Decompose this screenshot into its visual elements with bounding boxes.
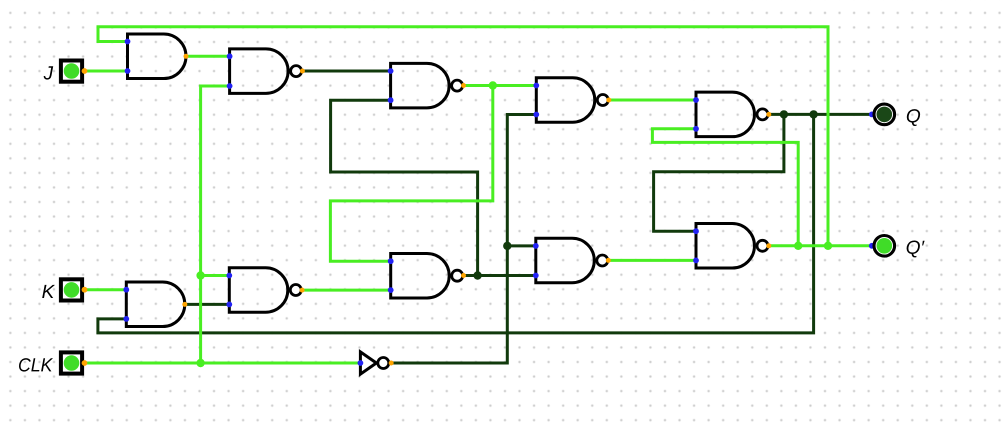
output node G7 (606, 258, 611, 263)
input J box (61, 61, 82, 82)
output node G10 (300, 288, 305, 293)
output node G3 (461, 83, 466, 88)
input node G6 pin1 (388, 258, 394, 264)
junction on Q wire (feedback to G8) (780, 110, 788, 118)
wire: AND G9 output to NAND G10 lower input (net low) (185, 303, 230, 306)
junction on Q wire (long feedback) (809, 110, 817, 118)
output Q ring (874, 104, 895, 125)
junction on Q' wire (feedback to G5) (794, 242, 802, 250)
input J state lamp (high) (64, 63, 80, 79)
wire: Q' feedback branch up to G5 lower input (652, 129, 798, 246)
wire: CLK horizontal run to NOT gate input (net high) (84, 362, 360, 365)
junction on inverted clock riser at G7 spur (503, 242, 511, 250)
wire: NAND G10 output to NAND G6 lower input (net high) (302, 289, 391, 292)
nand-gate G3 body (391, 63, 450, 108)
junction on Q' wire (top feedback) (824, 242, 832, 250)
label J (44, 66, 54, 79)
output node G8 (766, 243, 771, 248)
nand-gate G7 body (536, 238, 595, 283)
wire: CLK vertical riser up to G2 lower input (net high) (201, 86, 230, 363)
wire: NAND G6 output to NAND G7 lower input (net low) (464, 274, 536, 277)
wire: inverted clock net from NOT gate to G4 lower input (net low) (391, 115, 536, 364)
input node G3 pin2 (388, 97, 394, 103)
junction on CLK wire at riser base (196, 359, 204, 367)
wire: Q feedback branch to G8 upper input (654, 114, 784, 231)
input node G8 pin2 (693, 258, 699, 264)
and-gate G1 (128, 34, 186, 79)
input node of output Q' (869, 243, 875, 249)
input node G7 pin2 (533, 273, 539, 279)
input K box (61, 279, 82, 300)
input node G2 pin1 (227, 53, 233, 59)
input node NOT gate (358, 360, 364, 366)
input node G10 pin1 (226, 273, 232, 279)
input node G5 pin1 (693, 97, 699, 103)
input node G4 pin2 (533, 112, 539, 118)
input node G9 pin2 (123, 316, 129, 322)
output node G1 (184, 54, 189, 59)
wire: NAND G4 output to NAND G5 upper input (net high) (609, 99, 696, 102)
input node G6 pin2 (388, 287, 394, 293)
label Q (907, 109, 920, 126)
nand-gate G4 bubble (597, 95, 608, 106)
input node G2 pin2 (227, 83, 233, 89)
output Q' lamp (high) (877, 238, 893, 254)
label K (42, 285, 55, 298)
wire: input K to AND G9 upper input (net high) (84, 288, 126, 291)
junction on G3 output net (489, 81, 497, 89)
label Q' (907, 241, 925, 258)
nand-gate G8 body (696, 224, 754, 268)
output node G2 (300, 69, 305, 74)
wire: Q net from G5 output to output Q (net low) (769, 113, 872, 116)
wire: AND G1 output to NAND G2 upper input (net high) (186, 55, 230, 58)
input node G7 pin1 (533, 243, 539, 249)
wire: NAND G3 output to NAND G4 upper input (net high) (464, 84, 537, 87)
output node G5 (766, 112, 771, 117)
nand-gate G5 body (696, 92, 755, 136)
input node G1 pin1 (125, 39, 131, 45)
junction on G6 output net (473, 271, 481, 279)
wire: Q feedback long branch down and left to G9 lower input (98, 114, 814, 333)
input node G9 pin1 (123, 287, 129, 293)
wire: NAND G7 output to NAND G8 lower input (net high) (608, 259, 696, 262)
input node G8 pin1 (693, 228, 699, 234)
input node G10 pin2 (226, 302, 232, 308)
output node G9 (182, 302, 187, 307)
wire: Q' top feedback to AND G1 upper input (net high) (98, 27, 828, 246)
output Q' ring (874, 236, 895, 257)
output Q lamp (low) (877, 107, 893, 123)
nand-gate G10 bubble (290, 285, 301, 296)
nand-gate G4 body (536, 78, 594, 123)
nand-gate G5 bubble (757, 109, 768, 120)
output node G4 (606, 98, 611, 103)
input node G1 pin2 (125, 68, 131, 74)
nand-gate G7 bubble (597, 255, 608, 266)
wire: input J to AND G1 lower input (net high) (84, 70, 127, 73)
input K state lamp (high) (64, 282, 80, 298)
nand-gate G6 bubble (452, 270, 463, 281)
nand-gate G3 bubble (452, 80, 463, 91)
wire: NAND G2 output to NAND G3 input (net low) (302, 70, 390, 73)
input node G4 pin1 (533, 83, 539, 89)
output node NOT gate (389, 361, 394, 366)
wire: G3 output branch down-left to G6 upper input (330, 86, 492, 262)
nand-gate G2 body (230, 49, 289, 94)
not-gate triangle (clock inverter) (360, 352, 376, 374)
and-gate G9 (126, 282, 185, 327)
input CLK state lamp (high) (64, 355, 80, 371)
output node of input CLK (82, 360, 88, 366)
input CLK box (61, 352, 82, 373)
output node G6 (461, 273, 466, 278)
not-gate bubble (378, 358, 389, 369)
output node of input J (82, 68, 88, 74)
input node G3 pin1 (388, 68, 394, 74)
wire: Q' net from G8 output to output Q' (net high) (769, 244, 872, 247)
label CLK (19, 358, 53, 372)
output node of input K (82, 287, 88, 293)
wire: CLK spur to G10 upper input (201, 274, 230, 277)
nand-gate G8 bubble (757, 240, 768, 251)
junction on CLK riser at G10 spur (196, 271, 204, 279)
nand-gate G10 body (229, 268, 288, 313)
input node of output Q (869, 112, 875, 118)
input node G5 pin2 (693, 126, 699, 132)
nand-gate G2 bubble (291, 66, 302, 77)
wire: inverted clock spur to G7 upper input (507, 244, 536, 247)
nand-gate G6 body (391, 253, 450, 298)
wire: cross-coupling from G6 output junction up to G3 lower input (net low) (331, 100, 478, 275)
